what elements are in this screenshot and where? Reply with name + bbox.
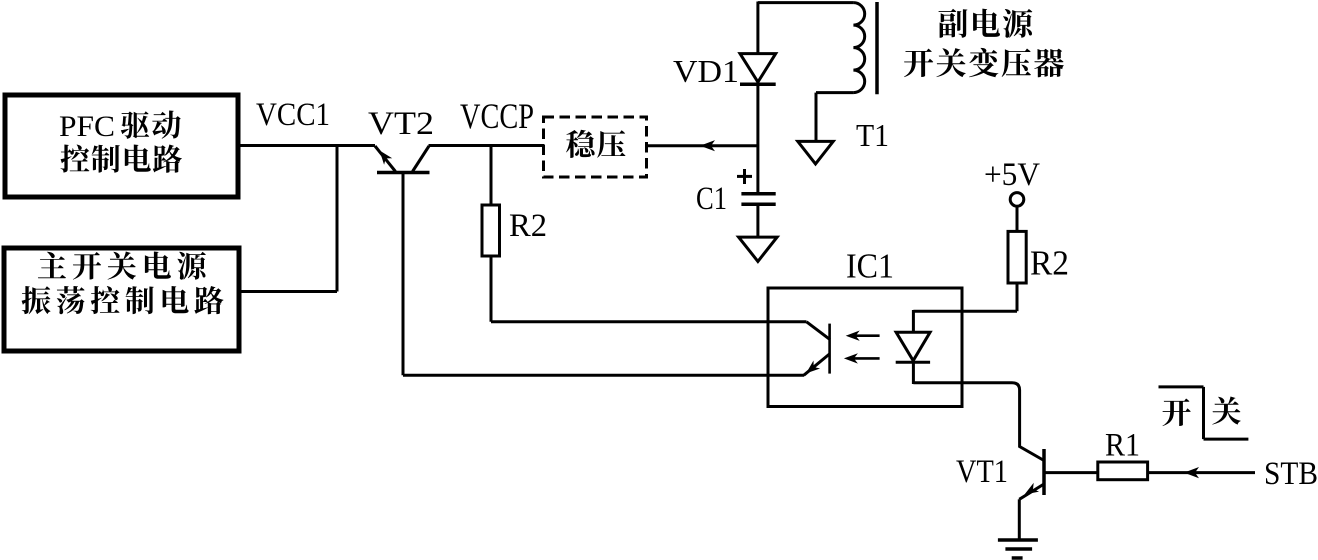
capacitor C1 bottom plate xyxy=(741,203,775,207)
wire winding bottom to ground drop xyxy=(816,91,853,94)
svg-text:R2: R2 xyxy=(1030,244,1069,283)
svg-text:IC1: IC1 xyxy=(846,247,894,286)
transistor VT2 emitter diagonal xyxy=(375,146,396,172)
optocoupler IC1 box xyxy=(768,288,962,407)
phototransistor emitter arrow xyxy=(806,361,820,374)
LED anode lead xyxy=(912,310,915,333)
svg-text:PFC: PFC xyxy=(59,110,115,143)
svg-text:VCC1: VCC1 xyxy=(256,97,330,133)
ground VT1 line 1 xyxy=(998,538,1038,542)
resistor R2 right body xyxy=(1008,231,1026,283)
phototransistor collector diagonal xyxy=(807,322,831,340)
wire +5V to R2 xyxy=(1016,206,1019,232)
text 开 (waveform) xyxy=(1163,399,1191,427)
wire R1 to STB xyxy=(1148,471,1255,474)
transistor VT2 base bar xyxy=(377,171,430,175)
svg-text:C1: C1 xyxy=(696,181,727,217)
svg-text:+5V: +5V xyxy=(984,157,1040,193)
arrow on wire toward regulator xyxy=(700,140,715,151)
LED cathode lead xyxy=(912,362,915,384)
text 稳压 xyxy=(566,130,625,158)
svg-text:VD1: VD1 xyxy=(673,53,739,89)
wire drop to T1 ground xyxy=(815,93,818,143)
ground C1 (open triangle) xyxy=(739,237,778,261)
text box2 line2 振荡控制电路 xyxy=(22,286,224,314)
wire R2 to LED anode xyxy=(913,310,1017,313)
text 开关变压器 xyxy=(904,48,1064,77)
transformer T1 core bar xyxy=(875,2,879,94)
diode VD1 cathode bar xyxy=(740,83,776,87)
svg-text:T1: T1 xyxy=(856,117,889,153)
text box2 line1 主开关电源 xyxy=(38,252,206,280)
transistor VT1 base bar xyxy=(1042,449,1046,495)
arrow on STB wire xyxy=(1184,467,1199,478)
phototransistor emitter diagonal xyxy=(804,354,830,375)
wire R2 left to IC1 phototransistor collector xyxy=(491,320,807,323)
LED cathode bar xyxy=(896,361,930,364)
text PFC drive line 1 CJK 驱动 xyxy=(121,111,181,139)
transistor VT1 base wire to R1 xyxy=(1044,471,1098,474)
wire branch down at x337 xyxy=(336,144,339,292)
ground VT1 line 3 xyxy=(1012,556,1023,560)
wire top of rail above VD1 xyxy=(756,2,759,56)
text 关 (waveform) xyxy=(1212,397,1240,425)
text 副电源 xyxy=(939,9,1033,38)
capacitor C1 plus sign xyxy=(737,175,752,178)
svg-text:VT2: VT2 xyxy=(368,106,434,142)
transistor VT2 emitter arrow xyxy=(380,151,393,165)
resistor R1 body xyxy=(1098,462,1148,480)
light arrow upper xyxy=(851,334,880,337)
wire VD1 to C1 xyxy=(756,84,759,194)
transistor VT2 collector diagonal xyxy=(413,146,430,172)
diode VD1 triangle xyxy=(740,54,776,83)
ground VT1 line 2 xyxy=(1005,547,1032,551)
wire rail top to transformer winding xyxy=(758,1,854,4)
transistor VT1 emitter arrow xyxy=(1025,483,1040,495)
svg-text:STB: STB xyxy=(1264,456,1318,492)
wire C1 to ground xyxy=(756,204,759,238)
wire regulator to VD1 node xyxy=(647,144,760,147)
block main switching PSU oscillation control box xyxy=(4,248,239,351)
wire VT2 collector to regulator box xyxy=(429,144,545,147)
wire VT2 base drop xyxy=(402,173,405,375)
wire branch to box2 xyxy=(239,290,337,293)
block regulator (dashed) box xyxy=(544,117,647,177)
transistor VT1 emitter diagonal xyxy=(1019,484,1044,499)
resistor R2 left body xyxy=(482,205,500,256)
capacitor C1 top plate xyxy=(741,192,775,196)
wire VCCP node down to R2 xyxy=(490,146,493,207)
phototransistor bar xyxy=(828,324,831,374)
ground T1 (open triangle) xyxy=(798,141,833,164)
waveform low segment xyxy=(1204,438,1249,441)
transformer T1 winding (4 arcs) xyxy=(853,3,864,93)
waveform high segment xyxy=(1159,385,1204,388)
svg-text:R1: R1 xyxy=(1105,428,1140,464)
svg-text:VT1: VT1 xyxy=(956,454,1008,490)
LED triangle xyxy=(896,332,930,361)
wire VT1 emitter down to ground xyxy=(1018,499,1021,540)
wire VT2 base to IC1 phototransistor emitter xyxy=(403,374,804,377)
block PFC drive control circuit box xyxy=(5,95,238,197)
svg-text:VCCP: VCCP xyxy=(460,96,534,136)
wire box1 to VT2 emitter (VCC1 net) xyxy=(238,144,375,147)
waveform falling edge xyxy=(1202,387,1205,439)
terminal +5V circle xyxy=(1010,193,1024,207)
light arrow lower xyxy=(849,357,880,360)
wire LED cathode to VT1 collector xyxy=(913,383,1044,461)
wire R2 right down xyxy=(1016,283,1019,311)
text PFC drive line 2 控制电路 xyxy=(61,145,182,173)
wire R2 left bottom down xyxy=(490,256,493,322)
svg-text:R2: R2 xyxy=(509,208,547,244)
